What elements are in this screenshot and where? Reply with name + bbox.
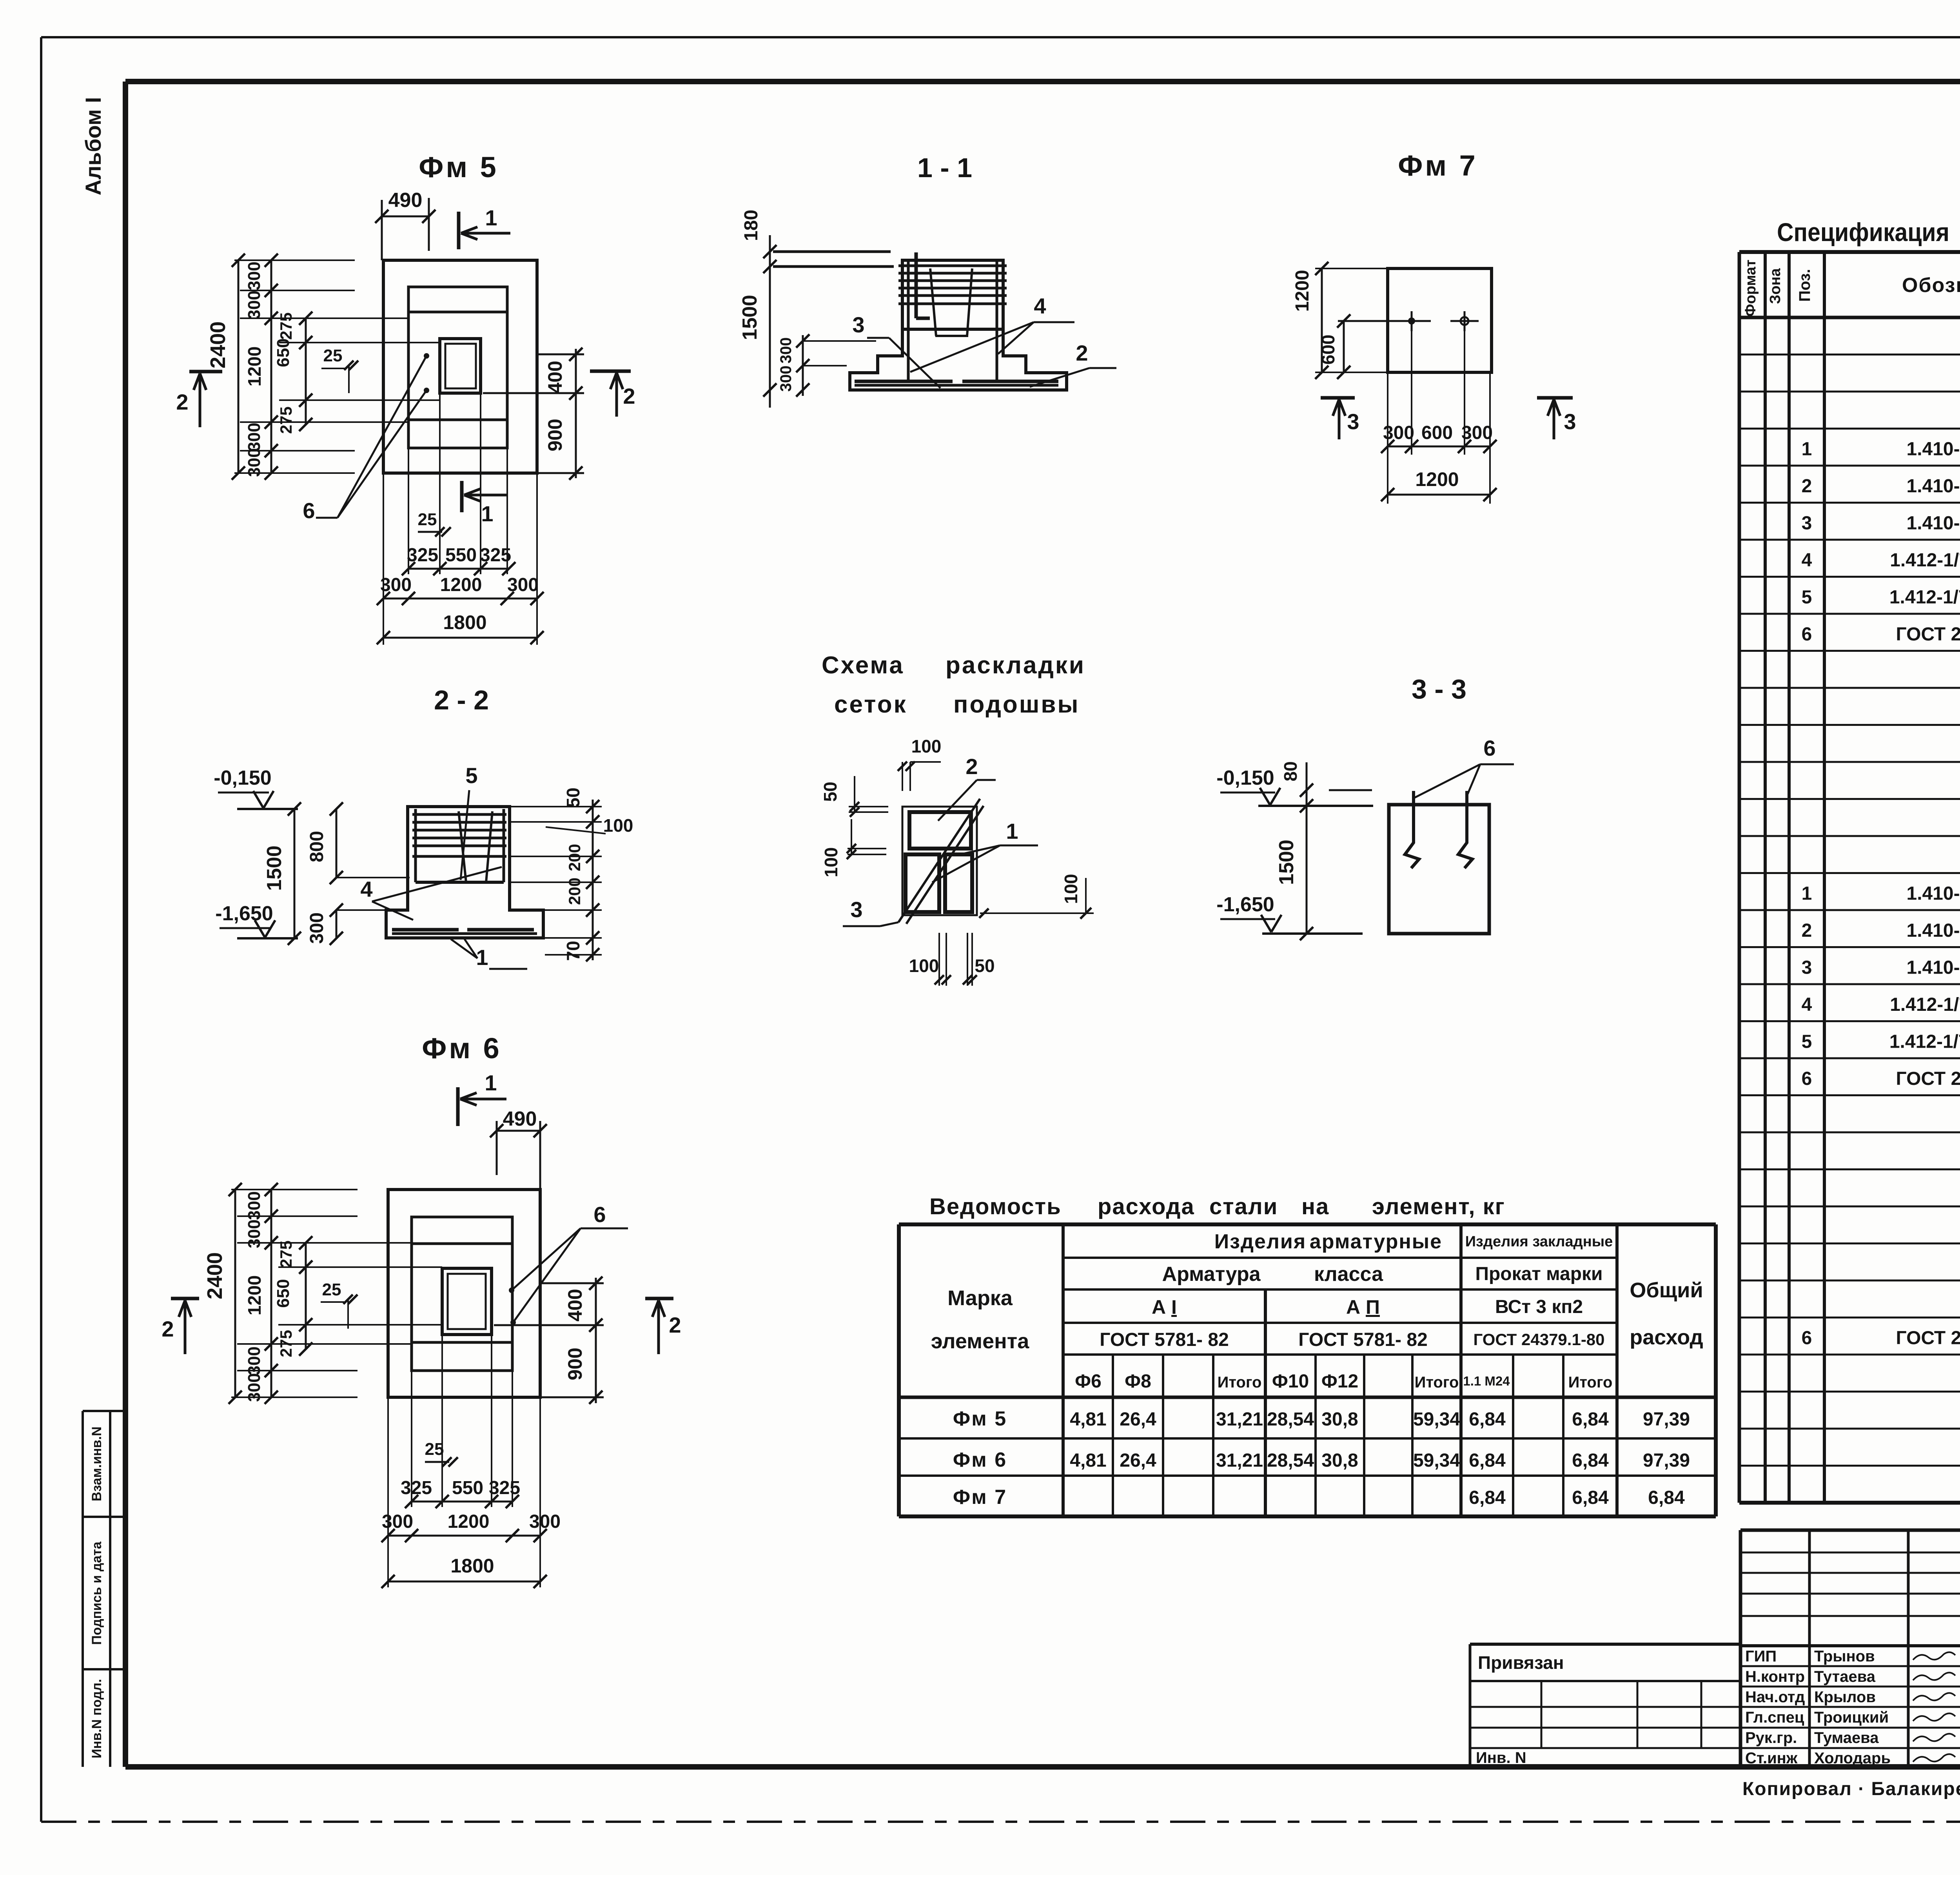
- svg-text:300: 300: [777, 366, 795, 392]
- Fm7 section mark 3 left: [1321, 396, 1355, 400]
- svg-text:ГОСТ 24379.1-80: ГОСТ 24379.1-80: [1896, 624, 1960, 645]
- svg-text:Гл.спец: Гл.спец: [1745, 1709, 1804, 1726]
- svg-text:31,21: 31,21: [1216, 1409, 1263, 1430]
- svg-text:Ст.инж: Ст.инж: [1745, 1750, 1798, 1767]
- svg-text:180: 180: [741, 210, 762, 241]
- 2-2 right dim chain: [510, 806, 602, 807]
- 2-2 slab mesh lines: [392, 928, 537, 932]
- svg-text:1.412-1/77-В.3-040: 1.412-1/77-В.3-040: [1889, 587, 1960, 608]
- Fm5 anchor box: [440, 339, 481, 393]
- Fm5 inner footprint: [408, 287, 507, 448]
- 2-2 bolt cage trapezoid: [459, 811, 466, 882]
- binding table left: [1470, 1643, 1740, 1646]
- svg-text:1200: 1200: [244, 346, 265, 386]
- Fm6 dim 2400: [234, 1190, 236, 1397]
- svg-text:2: 2: [1802, 920, 1812, 941]
- svg-text:-1,650: -1,650: [215, 902, 273, 925]
- svg-text:Формат: Формат: [1742, 259, 1759, 317]
- Fm6 left extension lines: [231, 1189, 358, 1190]
- svg-text:325: 325: [407, 545, 438, 566]
- svg-text:стали: стали: [1209, 1194, 1278, 1219]
- svg-text:1.412-1/77-В.3-110: 1.412-1/77-В.3-110: [1890, 994, 1960, 1015]
- 2-2 cage verticals: [414, 809, 417, 882]
- svg-text:200: 200: [565, 878, 584, 905]
- Fm5 left extension lines: [234, 259, 355, 261]
- 3-3 slab outline: [1389, 805, 1489, 934]
- svg-text:Инв.N подл.: Инв.N подл.: [89, 1679, 104, 1759]
- svg-text:4,81: 4,81: [1070, 1409, 1106, 1430]
- svg-text:1200: 1200: [440, 575, 482, 595]
- svg-text:25: 25: [323, 346, 343, 365]
- svg-text:сеток: сеток: [834, 691, 907, 718]
- svg-text:300: 300: [307, 912, 327, 944]
- svg-text:Зона: Зона: [1767, 268, 1784, 304]
- svg-text:6: 6: [1802, 1328, 1812, 1349]
- svg-text:30,8: 30,8: [1321, 1450, 1358, 1471]
- svg-text:1: 1: [1006, 819, 1018, 843]
- svg-text:2: 2: [176, 390, 188, 414]
- svg-text:элемента: элемента: [931, 1329, 1029, 1353]
- svg-text:Фм 5: Фм 5: [953, 1407, 1007, 1430]
- svg-text:275: 275: [277, 1240, 295, 1268]
- svg-text:3: 3: [1347, 409, 1359, 434]
- Fm6 bottom ext lines: [387, 1397, 389, 1587]
- scheme slab outline: [902, 807, 977, 915]
- scheme mesh sheet 3: [906, 854, 939, 912]
- svg-text:900: 900: [544, 419, 566, 451]
- svg-text:1200: 1200: [448, 1511, 490, 1532]
- 1-1 slab mesh lines: [855, 380, 1058, 383]
- svg-text:ГОСТ 5781- 82: ГОСТ 5781- 82: [1298, 1329, 1428, 1350]
- svg-text:26,4: 26,4: [1120, 1450, 1156, 1471]
- Fm5 dim row 300 1200 300: [383, 598, 537, 600]
- Fm7 left ext lines: [1315, 268, 1388, 269]
- svg-text:100: 100: [821, 847, 841, 878]
- svg-text:Тутаева: Тутаева: [1814, 1668, 1876, 1685]
- svg-text:6: 6: [303, 498, 315, 523]
- Fm7 bolt marks: [1408, 317, 1415, 325]
- svg-text:1500: 1500: [263, 845, 286, 891]
- svg-text:Изделия закладные: Изделия закладные: [1465, 1233, 1613, 1250]
- svg-text:ГОСТ 5781- 82: ГОСТ 5781- 82: [1100, 1329, 1229, 1350]
- spec table grid: [1739, 250, 1960, 254]
- svg-text:раскладки: раскладки: [946, 652, 1085, 679]
- svg-text:1.1 М24: 1.1 М24: [1463, 1374, 1510, 1388]
- 1-1 anchor bolt glyph: [915, 252, 918, 318]
- svg-text:3: 3: [850, 897, 862, 922]
- svg-text:5: 5: [1802, 587, 1812, 608]
- Fm5 dim row 325 550 325: [408, 568, 509, 570]
- svg-text:1.410-2, вып.1: 1.410-2, вып.1: [1907, 883, 1960, 904]
- svg-text:4: 4: [1802, 994, 1812, 1015]
- svg-text:6,84: 6,84: [1572, 1487, 1609, 1508]
- svg-text:Альбом I: Альбом I: [81, 97, 105, 195]
- svg-text:Схема: Схема: [822, 652, 904, 679]
- svg-text:300: 300: [777, 337, 795, 364]
- svg-text:Привязан: Привязан: [1478, 1652, 1564, 1673]
- svg-text:6: 6: [1483, 736, 1495, 760]
- svg-text:550: 550: [445, 545, 477, 566]
- svg-text:элемент, кг: элемент, кг: [1372, 1194, 1505, 1219]
- svg-text:Копировал · Балакирева: Копировал · Балакирева: [1742, 1779, 1960, 1799]
- svg-text:ГОСТ 24379.1-80: ГОСТ 24379.1-80: [1473, 1330, 1604, 1349]
- scheme diagonals: [898, 799, 980, 922]
- 2-2 cage bars: [412, 813, 506, 816]
- Fm5 dim 2400: [238, 260, 240, 473]
- Fm6 section mark 1 top: [456, 1087, 460, 1126]
- title block name rows: [1740, 1665, 1960, 1667]
- Fm5 inner band lines: [408, 311, 507, 314]
- svg-text:3 - 3: 3 - 3: [1412, 674, 1466, 704]
- svg-text:6: 6: [593, 1202, 606, 1227]
- Fm6 section mark 2 left: [171, 1297, 199, 1300]
- svg-text:97,39: 97,39: [1643, 1450, 1690, 1471]
- svg-text:Фм 5: Фм 5: [419, 151, 499, 183]
- svg-text:300: 300: [245, 290, 264, 319]
- Fm7 bottom ext lines: [1411, 331, 1412, 455]
- svg-text:300: 300: [245, 448, 264, 477]
- svg-text:Ф10: Ф10: [1272, 1371, 1309, 1392]
- svg-text:1.410-2, вып.1: 1.410-2, вып.1: [1907, 439, 1960, 460]
- 2-2 dim 1500: [294, 809, 296, 938]
- svg-text:300: 300: [1383, 423, 1414, 443]
- 1-1 left chain 300 300: [802, 335, 804, 396]
- svg-text:6,84: 6,84: [1469, 1487, 1506, 1508]
- svg-text:6: 6: [1802, 1068, 1812, 1089]
- svg-text:2: 2: [1802, 476, 1812, 497]
- svg-text:класса: класса: [1314, 1263, 1383, 1286]
- svg-text:расход: расход: [1630, 1326, 1703, 1349]
- svg-text:2400: 2400: [206, 321, 230, 368]
- Fm5 right dim 400 900: [539, 354, 584, 355]
- svg-text:300: 300: [245, 1219, 264, 1248]
- title block small rows: [1740, 1552, 1960, 1554]
- svg-text:80: 80: [1280, 761, 1301, 781]
- Fm6 section mark 2 right: [645, 1297, 673, 1300]
- 1-1 cage verticals: [907, 260, 910, 382]
- svg-text:Итого: Итого: [1568, 1374, 1613, 1391]
- svg-text:3: 3: [1802, 958, 1812, 978]
- svg-text:1.410-2, вып.1: 1.410-2, вып.1: [1907, 476, 1960, 497]
- 1-1 left dim 180 1500: [769, 235, 771, 408]
- 3-3 dim 1500: [1306, 762, 1308, 934]
- svg-text:ГИП: ГИП: [1745, 1648, 1777, 1665]
- 2-2 concrete outline: [386, 807, 543, 938]
- Fm5 section mark 2 left: [189, 370, 222, 374]
- svg-text:100: 100: [603, 815, 633, 836]
- svg-text:Ф6: Ф6: [1075, 1371, 1102, 1392]
- svg-text:600: 600: [1318, 335, 1338, 365]
- svg-text:50: 50: [563, 787, 583, 807]
- svg-text:1: 1: [1802, 439, 1812, 460]
- svg-text:Марка: Марка: [947, 1286, 1013, 1310]
- svg-text:59,34: 59,34: [1413, 1450, 1460, 1471]
- svg-text:550: 550: [452, 1478, 483, 1498]
- svg-text:Итого: Итого: [1415, 1374, 1459, 1391]
- Fm6 left chain 275 650 275: [305, 1243, 307, 1349]
- Fm6 dim 1800: [388, 1581, 540, 1583]
- svg-text:100: 100: [1061, 874, 1081, 904]
- svg-text:1 - 1: 1 - 1: [917, 152, 972, 183]
- svg-text:1200: 1200: [1415, 468, 1459, 490]
- svg-text:ГОСТ 24379.1-80: ГОСТ 24379.1-80: [1896, 1068, 1960, 1089]
- svg-text:50: 50: [975, 956, 995, 976]
- svg-text:Обозначение: Обозначение: [1902, 274, 1960, 297]
- svg-text:275: 275: [277, 312, 295, 340]
- svg-text:6,84: 6,84: [1572, 1409, 1609, 1430]
- svg-text:3: 3: [1802, 513, 1812, 534]
- svg-text:200: 200: [565, 844, 584, 871]
- svg-text:300: 300: [245, 423, 264, 451]
- svg-text:1: 1: [485, 205, 497, 230]
- svg-text:1.412-1/77-В.3-040: 1.412-1/77-В.3-040: [1889, 1032, 1960, 1052]
- outer sheet border: [41, 36, 1960, 38]
- svg-text:25: 25: [418, 510, 437, 529]
- scheme mesh sheet 2: [909, 812, 971, 849]
- svg-text:25: 25: [425, 1440, 444, 1459]
- Fm7 dim 1200 bottom: [1388, 494, 1490, 496]
- svg-text:1500: 1500: [1275, 840, 1298, 885]
- svg-text:3: 3: [852, 312, 864, 337]
- svg-text:4: 4: [1034, 294, 1046, 318]
- svg-text:ВСт 3 кп2: ВСт 3 кп2: [1495, 1297, 1583, 1317]
- svg-text:-1,650: -1,650: [1216, 893, 1274, 916]
- svg-text:300: 300: [245, 1373, 264, 1402]
- signature scribbles: [1913, 1652, 1955, 1660]
- svg-text:300: 300: [1461, 423, 1493, 443]
- svg-text:Инв. N: Инв. N: [1476, 1749, 1526, 1766]
- inner drawing frame: [125, 79, 1960, 84]
- Fm7 dim 1200 left: [1321, 268, 1323, 372]
- svg-text:2: 2: [623, 384, 635, 408]
- svg-text:400: 400: [564, 1289, 586, 1321]
- svg-text:4: 4: [360, 877, 372, 901]
- Fm7 section mark 3 right: [1537, 396, 1573, 400]
- svg-text:1800: 1800: [450, 1555, 494, 1577]
- Fm7 dim row 300 600 300: [1388, 446, 1490, 448]
- svg-text:2: 2: [162, 1317, 174, 1341]
- svg-text:Ведомость: Ведомость: [929, 1194, 1062, 1219]
- steel table grid: [899, 1222, 1716, 1226]
- Fm5 bottom ext lines: [383, 473, 384, 645]
- svg-text:Фм 6: Фм 6: [422, 1032, 502, 1065]
- svg-text:300: 300: [380, 575, 412, 595]
- svg-text:5: 5: [1802, 1032, 1812, 1052]
- Fm5 dim 1800: [383, 637, 537, 639]
- Fm5 leader 6: [424, 353, 429, 359]
- svg-text:6,84: 6,84: [1572, 1450, 1609, 1471]
- svg-text:Спецификация: Спецификация: [1777, 218, 1949, 247]
- Fm5 section mark 1 bottom: [460, 481, 464, 512]
- svg-text:70: 70: [563, 941, 583, 961]
- svg-text:1.412-1/77-В.3-110: 1.412-1/77-В.3-110: [1890, 550, 1960, 571]
- svg-text:-0,150: -0,150: [214, 767, 271, 789]
- Fm6 inner footprint: [412, 1217, 512, 1371]
- svg-text:расхода: расхода: [1098, 1194, 1195, 1219]
- svg-text:59,34: 59,34: [1413, 1409, 1460, 1430]
- svg-text:25: 25: [322, 1280, 341, 1299]
- svg-text:Н.контр: Н.контр: [1745, 1668, 1805, 1685]
- svg-text:Ф12: Ф12: [1321, 1371, 1358, 1392]
- svg-text:28,54: 28,54: [1267, 1450, 1314, 1471]
- svg-text:400: 400: [544, 361, 566, 393]
- svg-text:-0,150: -0,150: [1216, 767, 1274, 789]
- svg-text:5: 5: [465, 763, 477, 788]
- svg-text:Поз.: Поз.: [1796, 269, 1813, 302]
- svg-text:900: 900: [564, 1347, 586, 1380]
- Fm7 slab outline: [1388, 268, 1492, 372]
- svg-text:Взам.инв.N: Взам.инв.N: [89, 1427, 104, 1502]
- svg-text:300: 300: [245, 1191, 264, 1220]
- svg-text:2: 2: [965, 754, 978, 779]
- Fm6 inner band lines: [412, 1242, 512, 1245]
- svg-text:Рук.гр.: Рук.гр.: [1745, 1729, 1797, 1746]
- svg-text:6,84: 6,84: [1469, 1409, 1506, 1430]
- svg-text:490: 490: [388, 189, 423, 212]
- svg-text:1200: 1200: [1292, 270, 1313, 312]
- svg-text:1.410-2, вып.1: 1.410-2, вып.1: [1907, 958, 1960, 978]
- 1-1 concrete outline: [850, 260, 1067, 390]
- Fm5 section mark 2 right: [590, 370, 631, 373]
- svg-text:2400: 2400: [203, 1252, 227, 1299]
- svg-text:800: 800: [307, 831, 327, 862]
- svg-text:650: 650: [274, 1279, 293, 1308]
- svg-text:100: 100: [911, 736, 942, 756]
- Fm6 right dims 400 900: [542, 1282, 604, 1284]
- svg-text:6,84: 6,84: [1469, 1450, 1506, 1471]
- svg-text:300: 300: [382, 1511, 413, 1532]
- svg-text:325: 325: [480, 545, 511, 566]
- svg-text:2: 2: [669, 1313, 681, 1337]
- svg-text:650: 650: [274, 338, 293, 367]
- svg-text:подошвы: подошвы: [953, 691, 1080, 718]
- svg-text:Ф8: Ф8: [1125, 1371, 1151, 1392]
- svg-text:Тумаева: Тумаева: [1814, 1729, 1879, 1746]
- svg-text:Итого: Итого: [1218, 1374, 1262, 1391]
- Fm6 dim row 300 1200 300: [388, 1535, 540, 1537]
- Fm5 section mark 1 top: [457, 212, 461, 249]
- svg-text:4: 4: [1802, 550, 1812, 571]
- svg-text:28,54: 28,54: [1267, 1409, 1314, 1430]
- svg-text:на: на: [1301, 1194, 1329, 1219]
- svg-text:600: 600: [1421, 423, 1453, 443]
- svg-text:Фм 6: Фм 6: [953, 1449, 1007, 1471]
- 3-3 anchor bolts: [1405, 791, 1419, 868]
- Fm6 anchor box: [442, 1268, 492, 1335]
- svg-text:Прокат марки: Прокат марки: [1475, 1264, 1602, 1284]
- svg-text:1500: 1500: [739, 295, 761, 340]
- svg-text:Троицкий: Троицкий: [1814, 1709, 1889, 1726]
- Fm6 slab outline: [388, 1190, 540, 1397]
- svg-text:300: 300: [507, 575, 539, 595]
- 1-1 bolt cage trapezoid: [930, 268, 936, 336]
- 2-2 dim 800: [336, 809, 338, 878]
- 1-1 anchor cage bars: [898, 265, 1007, 267]
- svg-text:1: 1: [485, 1070, 497, 1095]
- svg-text:325: 325: [401, 1478, 432, 1498]
- left margin stamp boxes: [82, 1411, 84, 1767]
- Fm7 dim 600 left: [1343, 321, 1345, 372]
- Fm7 centerline: [1338, 320, 1431, 322]
- svg-text:А П: А П: [1346, 1296, 1380, 1318]
- 1-1 floor level lines: [773, 250, 891, 253]
- svg-text:1: 1: [1802, 883, 1812, 904]
- svg-text:1: 1: [481, 501, 493, 526]
- svg-text:арматурные: арматурные: [1310, 1230, 1442, 1253]
- svg-text:300: 300: [245, 1346, 264, 1375]
- Fm5 left chain 300 300 1200 300 300: [270, 260, 272, 473]
- svg-text:300: 300: [245, 261, 264, 290]
- svg-text:Нач.отд: Нач.отд: [1745, 1688, 1805, 1706]
- svg-text:А I: А I: [1152, 1296, 1177, 1318]
- Fm6 leader 6: [509, 1288, 514, 1293]
- svg-text:Трынов: Трынов: [1814, 1648, 1875, 1665]
- Fm6 dim row 325 550 325: [412, 1501, 512, 1503]
- svg-text:Холодарь: Холодарь: [1814, 1750, 1891, 1767]
- svg-text:Арматура: Арматура: [1162, 1263, 1261, 1286]
- svg-text:1200: 1200: [244, 1275, 265, 1315]
- svg-text:275: 275: [277, 1330, 295, 1357]
- svg-text:ГОСТ 24379.1-80: ГОСТ 24379.1-80: [1896, 1328, 1960, 1349]
- svg-text:Изделия: Изделия: [1214, 1230, 1307, 1253]
- svg-text:50: 50: [820, 782, 840, 802]
- svg-text:1.410-2, вып.1: 1.410-2, вып.1: [1907, 513, 1960, 534]
- svg-text:1800: 1800: [443, 611, 486, 633]
- svg-text:300: 300: [529, 1511, 561, 1532]
- svg-text:4,81: 4,81: [1070, 1450, 1106, 1471]
- svg-text:2 - 2: 2 - 2: [434, 685, 489, 715]
- svg-text:6: 6: [1802, 624, 1812, 645]
- svg-text:Общий: Общий: [1630, 1279, 1703, 1302]
- svg-text:Фм 7: Фм 7: [953, 1486, 1007, 1509]
- Fm5 left chain 275 650 275: [305, 318, 307, 424]
- svg-text:97,39: 97,39: [1643, 1409, 1690, 1430]
- svg-text:3: 3: [1564, 409, 1576, 434]
- svg-text:275: 275: [277, 406, 295, 434]
- 2-2 dim 300: [336, 910, 338, 938]
- title block outline: [1740, 1529, 1960, 1532]
- svg-text:26,4: 26,4: [1120, 1409, 1156, 1430]
- Fm5 slab outline: [383, 260, 537, 473]
- svg-text:Крылов: Крылов: [1814, 1688, 1876, 1706]
- svg-text:Подпись и дата: Подпись и дата: [89, 1541, 104, 1645]
- svg-text:6,84: 6,84: [1648, 1487, 1685, 1508]
- svg-text:325: 325: [489, 1478, 520, 1498]
- Fm6 left chain 300 300 1200 300 300: [270, 1190, 272, 1397]
- scheme mesh sheet 1: [945, 854, 972, 912]
- Fm5 dim 490: [382, 216, 429, 218]
- svg-text:2: 2: [1076, 341, 1088, 365]
- svg-text:100: 100: [909, 956, 939, 976]
- svg-text:31,21: 31,21: [1216, 1450, 1263, 1471]
- svg-text:30,8: 30,8: [1321, 1409, 1358, 1430]
- svg-text:1.410-2, вып.1: 1.410-2, вып.1: [1907, 920, 1960, 941]
- svg-text:Фм 7: Фм 7: [1398, 149, 1478, 182]
- svg-text:490: 490: [503, 1108, 537, 1130]
